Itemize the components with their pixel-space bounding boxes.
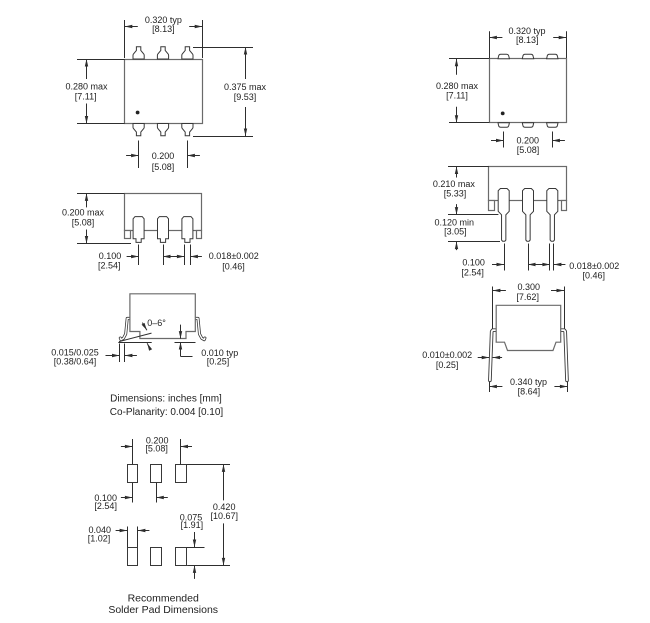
svg-text:0.100: 0.100 (462, 258, 485, 268)
svg-text:[0.46]: [0.46] (583, 271, 606, 281)
svg-text:0.280 max: 0.280 max (65, 81, 108, 91)
svg-text:[1.02]: [1.02] (88, 534, 111, 544)
svg-text:[9.53]: [9.53] (234, 92, 257, 102)
svg-text:0.375 max: 0.375 max (224, 82, 267, 92)
svg-text:[7.11]: [7.11] (75, 92, 97, 102)
svg-text:[0.25]: [0.25] (436, 360, 459, 370)
svg-text:Co-Planarity: 0.004 [0.10]: Co-Planarity: 0.004 [0.10] (110, 407, 224, 418)
svg-text:[0.46]: [0.46] (222, 262, 245, 272)
svg-text:[2.54]: [2.54] (98, 260, 121, 270)
svg-text:[5.33]: [5.33] (444, 189, 467, 199)
svg-text:0.210 max: 0.210 max (433, 179, 476, 189)
svg-text:0.010±0.002: 0.010±0.002 (422, 350, 472, 360)
svg-text:[0.25]: [0.25] (207, 357, 230, 367)
svg-text:[8.13]: [8.13] (152, 24, 175, 34)
svg-text:0–6°: 0–6° (147, 318, 166, 328)
svg-text:0.018±0.002: 0.018±0.002 (569, 261, 619, 271)
svg-text:[5.08]: [5.08] (72, 217, 95, 227)
svg-text:[3.05]: [3.05] (444, 227, 467, 237)
svg-text:[7.11]: [7.11] (446, 90, 468, 100)
svg-text:[2.54]: [2.54] (461, 267, 484, 277)
svg-text:[2.54]: [2.54] (94, 501, 117, 511)
svg-text:[5.08]: [5.08] (145, 444, 168, 454)
svg-text:0.018±0.002: 0.018±0.002 (209, 251, 259, 261)
svg-text:[5.08]: [5.08] (152, 162, 175, 172)
svg-text:Dimensions: inches [mm]: Dimensions: inches [mm] (110, 394, 222, 405)
svg-text:[10.67]: [10.67] (211, 511, 239, 521)
svg-text:0.340 typ: 0.340 typ (510, 377, 547, 387)
svg-text:Solder Pad Dimensions: Solder Pad Dimensions (108, 604, 218, 616)
svg-text:0.100: 0.100 (99, 251, 122, 261)
svg-text:0.200 max: 0.200 max (62, 208, 105, 218)
svg-text:[1.91]: [1.91] (181, 520, 204, 530)
svg-text:[8.64]: [8.64] (518, 387, 541, 397)
svg-text:[7.62]: [7.62] (516, 292, 539, 302)
svg-text:Recommended: Recommended (128, 592, 199, 604)
svg-text:[8.13]: [8.13] (516, 35, 539, 45)
svg-text:[0.38/0.64]: [0.38/0.64] (54, 356, 97, 366)
svg-text:0.200: 0.200 (152, 151, 175, 161)
svg-text:[5.08]: [5.08] (517, 145, 540, 155)
svg-text:0.300: 0.300 (518, 282, 541, 292)
